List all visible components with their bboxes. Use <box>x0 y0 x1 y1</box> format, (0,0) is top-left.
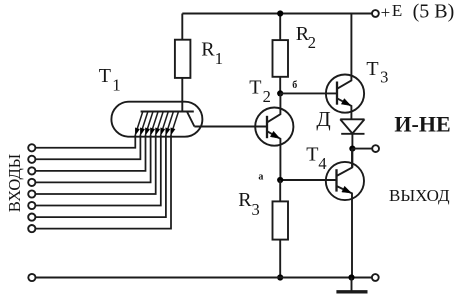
wire input 4 <box>35 135 150 183</box>
node input terminal 3 <box>28 167 35 174</box>
label T1 <box>99 65 121 95</box>
svg-text:+: + <box>381 3 391 22</box>
svg-text:Т: Т <box>249 77 261 99</box>
label а <box>258 172 263 183</box>
wire input 3 <box>35 135 145 171</box>
transistor T3 body <box>326 75 364 113</box>
node input terminal 6 <box>28 202 35 209</box>
svg-text:R: R <box>238 189 252 211</box>
ground <box>336 278 367 292</box>
svg-text:3: 3 <box>380 68 388 87</box>
svg-text:Т: Т <box>99 65 111 87</box>
wire input 7 <box>35 135 166 217</box>
node input terminal 2 <box>28 156 35 163</box>
label ВЫХОД <box>389 186 450 205</box>
transistor T1 emitter 8 <box>171 112 179 136</box>
transistor T3 base bar <box>336 82 338 105</box>
node junction R3 ground rail <box>277 274 283 280</box>
label И-НЕ <box>394 112 450 137</box>
label T3 <box>366 58 388 87</box>
node input terminal 7 <box>28 214 35 221</box>
label R2 <box>296 23 316 52</box>
wire diode to output node <box>351 134 353 149</box>
transistor T1 emitter 7 <box>166 112 174 136</box>
wire node b to T3 base <box>280 92 337 94</box>
transistor T2 emitter <box>267 131 280 180</box>
node output terminal <box>372 145 379 152</box>
transistor T1 collector lead <box>187 112 195 127</box>
svg-text:(5 В): (5 В) <box>413 0 455 22</box>
svg-text:1: 1 <box>215 49 224 68</box>
wire R2 bottom lead to node b <box>279 77 281 94</box>
transistor T4 base bar <box>335 169 337 191</box>
wire input 1 <box>35 135 135 148</box>
wire top supply rail <box>182 13 371 15</box>
wire bottom ground rail <box>36 277 372 279</box>
transistor T1 emitter 5 <box>156 112 164 136</box>
node b junction <box>277 90 283 96</box>
svg-text:ВЫХОД: ВЫХОД <box>389 186 450 205</box>
wire output node to T4 collector <box>351 149 353 168</box>
node output junction <box>349 146 355 152</box>
wire input 5 <box>35 135 155 194</box>
wire R1 bottom lead to T1 base <box>181 78 183 112</box>
node input terminal 8 <box>28 225 35 232</box>
node bottom left terminal <box>28 274 35 281</box>
transistor T4 body <box>326 162 364 200</box>
svg-text:И-НЕ: И-НЕ <box>394 112 450 137</box>
label T2 <box>249 77 271 107</box>
svg-text:2: 2 <box>263 87 271 106</box>
wire node a to R3 <box>279 180 281 201</box>
label R3 <box>238 189 260 219</box>
svg-text:б: б <box>292 80 297 91</box>
label б <box>292 80 297 91</box>
transistor T1 emitter 1 <box>135 112 143 136</box>
node input terminal 1 <box>28 144 35 151</box>
wire input 2 <box>35 135 140 160</box>
transistor T1 emitter 6 <box>161 112 169 136</box>
wire output node to terminal <box>352 148 372 150</box>
node input terminal 4 <box>28 179 35 186</box>
node junction top rail R2 <box>277 10 283 16</box>
svg-text:3: 3 <box>252 200 260 219</box>
svg-text:Т: Т <box>306 144 318 166</box>
wire node a to T4 base <box>280 179 336 181</box>
resistor R1 <box>175 40 191 78</box>
transistor T2 body <box>255 108 293 146</box>
svg-text:ВХОДЫ: ВХОДЫ <box>5 154 24 212</box>
wire R1 top lead <box>181 14 183 40</box>
resistor R3 <box>273 201 289 239</box>
transistor T4 collector <box>337 149 353 176</box>
transistor T1 emitter 2 <box>140 112 148 136</box>
diode D <box>340 119 364 134</box>
label +E (5 В) <box>381 0 455 22</box>
label ВХОДЫ <box>5 154 24 212</box>
transistor T1 emitter 3 <box>145 112 153 136</box>
transistor T1 emitter 4 <box>150 112 158 136</box>
svg-text:а: а <box>258 172 263 183</box>
transistor T2 base bar <box>266 116 268 138</box>
wire T1 collector to T2 base <box>194 126 267 128</box>
label T4 <box>306 144 326 174</box>
svg-text:Т: Т <box>366 58 378 80</box>
label Д <box>316 107 330 131</box>
transistor T1 base line <box>141 111 194 113</box>
transistor T2 collector <box>267 93 280 122</box>
node bottom right terminal <box>372 274 379 281</box>
transistor T1 multi-emitter body <box>111 102 202 137</box>
wire R2 top lead <box>279 14 281 41</box>
svg-text:4: 4 <box>318 154 326 173</box>
resistor R2 <box>273 40 289 77</box>
transistor T3 emitter <box>337 98 351 119</box>
wire R3 bottom lead to ground rail <box>279 240 281 278</box>
node +E terminal <box>372 10 379 17</box>
node junction ground <box>348 274 354 280</box>
node a junction <box>277 177 283 183</box>
wire input 8 <box>35 135 171 229</box>
wire input 6 <box>35 135 160 206</box>
label R1 <box>201 39 223 69</box>
svg-text:E: E <box>392 1 402 20</box>
svg-text:1: 1 <box>112 76 121 95</box>
transistor T4 emitter <box>337 186 353 278</box>
svg-text:Д: Д <box>316 107 330 131</box>
svg-text:R: R <box>201 39 215 61</box>
node input terminal 5 <box>28 190 35 197</box>
transistor T3 collector <box>337 14 351 89</box>
svg-text:2: 2 <box>308 33 316 52</box>
